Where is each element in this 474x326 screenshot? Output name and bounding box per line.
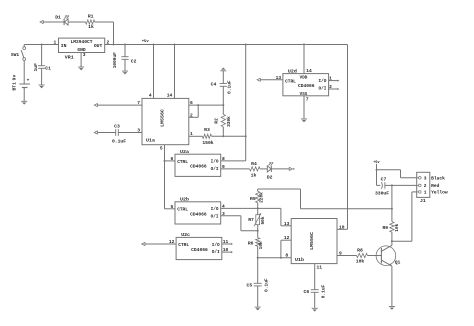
svg-text:8: 8 [285, 252, 288, 258]
svg-text:C2: C2 [131, 59, 137, 65]
svg-text:CTRL: CTRL [285, 78, 296, 84]
svg-text:C4: C4 [211, 81, 217, 87]
svg-text:R2: R2 [214, 118, 220, 124]
svg-text:12: 12 [284, 235, 290, 241]
svg-text:IN: IN [61, 43, 67, 49]
svg-text:CTRL: CTRL [177, 159, 188, 165]
svg-text:0.1uF: 0.1uF [263, 278, 269, 292]
svg-text:50k: 50k [260, 216, 266, 224]
svg-text:O/I: O/I [211, 215, 219, 220]
svg-text:U2c: U2c [181, 232, 190, 238]
svg-text:CTRL: CTRL [178, 242, 189, 248]
svg-text:10k: 10k [394, 223, 400, 231]
svg-text:U1b: U1b [295, 257, 304, 263]
svg-text:9v: 9v [11, 75, 17, 81]
svg-text:I/O: I/O [211, 207, 219, 212]
svg-text:10: 10 [223, 247, 229, 253]
svg-text:7: 7 [306, 97, 309, 103]
svg-text:3: 3 [424, 175, 427, 181]
svg-text:D2: D2 [267, 175, 273, 181]
svg-text:3: 3 [137, 128, 140, 134]
svg-text:1: 1 [190, 131, 193, 137]
svg-text:R8: R8 [357, 248, 363, 254]
svg-text:Q1: Q1 [395, 260, 401, 266]
svg-text:R6: R6 [248, 241, 254, 247]
svg-text:1k: 1k [88, 24, 94, 30]
svg-text:0.1uF: 0.1uF [227, 80, 233, 94]
svg-text:O/I: O/I [211, 167, 219, 172]
svg-text:CD4066: CD4066 [191, 247, 208, 253]
svg-text:1k: 1k [251, 172, 257, 178]
svg-text:7: 7 [137, 100, 140, 106]
svg-text:10k: 10k [356, 258, 365, 264]
svg-text:11: 11 [317, 264, 323, 270]
svg-text:1: 1 [329, 76, 332, 82]
svg-text:2: 2 [107, 39, 110, 45]
svg-text:11: 11 [223, 239, 229, 245]
svg-text:LM556C: LM556C [309, 232, 315, 250]
svg-text:8: 8 [222, 156, 225, 162]
svg-text:9: 9 [339, 251, 342, 257]
svg-text:2: 2 [424, 183, 427, 189]
svg-text:6: 6 [190, 100, 193, 106]
svg-text:5: 5 [160, 145, 163, 151]
svg-text:U2d: U2d [288, 68, 297, 74]
svg-text:U1a: U1a [146, 138, 155, 144]
svg-text:1: 1 [424, 190, 427, 196]
svg-text:Red: Red [431, 183, 440, 189]
svg-text:OUT: OUT [94, 43, 103, 49]
svg-text:C3: C3 [114, 123, 120, 129]
svg-text:4: 4 [222, 203, 225, 209]
svg-text:CD4066: CD4066 [298, 83, 315, 89]
svg-text:LM556C: LM556C [160, 109, 166, 127]
svg-text:C1: C1 [45, 66, 51, 72]
svg-text:R9: R9 [382, 225, 388, 231]
svg-text:6: 6 [171, 156, 174, 162]
svg-text:+: + [27, 79, 30, 84]
svg-text:3: 3 [83, 52, 86, 58]
svg-text:R3: R3 [204, 127, 210, 133]
svg-text:150k: 150k [202, 140, 213, 146]
svg-text:12: 12 [169, 239, 175, 245]
svg-text:VDD: VDD [300, 75, 308, 80]
svg-text:330k: 330k [226, 116, 232, 127]
svg-text:I/O: I/O [319, 79, 327, 84]
svg-text:3: 3 [222, 211, 225, 217]
svg-text:2: 2 [190, 112, 193, 118]
svg-text:D1: D1 [55, 14, 61, 20]
svg-text:CD4066: CD4066 [190, 211, 207, 217]
svg-text:13: 13 [276, 75, 282, 81]
svg-text:U2b: U2b [180, 197, 189, 203]
svg-text:13: 13 [284, 221, 290, 227]
svg-text:R1: R1 [88, 14, 94, 20]
svg-text:C5: C5 [247, 283, 253, 289]
svg-text:VR1: VR1 [65, 54, 74, 60]
svg-text:R5: R5 [250, 196, 256, 202]
svg-text:LM2940CT: LM2940CT [70, 39, 92, 45]
svg-text:C6: C6 [304, 289, 310, 295]
svg-text:4: 4 [149, 93, 152, 99]
svg-text:1000uF: 1000uF [112, 52, 118, 68]
svg-text:5: 5 [171, 204, 174, 210]
svg-text:I/O: I/O [211, 160, 219, 165]
svg-text:Black: Black [431, 175, 445, 181]
svg-text:U2a: U2a [180, 149, 189, 155]
svg-text:220k: 220k [259, 192, 265, 203]
svg-text:14: 14 [167, 93, 173, 99]
svg-text:1uF: 1uF [33, 63, 39, 72]
svg-text:2: 2 [329, 84, 332, 90]
svg-text:0.1uF: 0.1uF [320, 284, 326, 298]
svg-text:CD4066: CD4066 [190, 164, 207, 170]
svg-text:J1: J1 [420, 198, 426, 204]
svg-text:O/I: O/I [319, 86, 327, 91]
svg-text:9: 9 [222, 164, 225, 170]
svg-text:BT1: BT1 [11, 82, 17, 91]
svg-text:14: 14 [306, 68, 312, 74]
svg-text:R7: R7 [248, 217, 254, 223]
svg-text:0.1uF: 0.1uF [112, 139, 126, 145]
svg-text:10: 10 [339, 224, 345, 230]
svg-text:C7: C7 [381, 177, 387, 183]
svg-text:R4: R4 [251, 161, 257, 167]
svg-text:10k: 10k [258, 241, 264, 249]
svg-text:CTRL: CTRL [177, 207, 188, 213]
svg-text:O/I: O/I [212, 250, 220, 255]
svg-text:Yellow: Yellow [431, 190, 448, 196]
svg-text:I/O: I/O [212, 243, 220, 248]
svg-text:+5v: +5v [142, 40, 150, 44]
svg-text:330uF: 330uF [375, 191, 389, 197]
svg-text:SW1: SW1 [11, 52, 20, 58]
